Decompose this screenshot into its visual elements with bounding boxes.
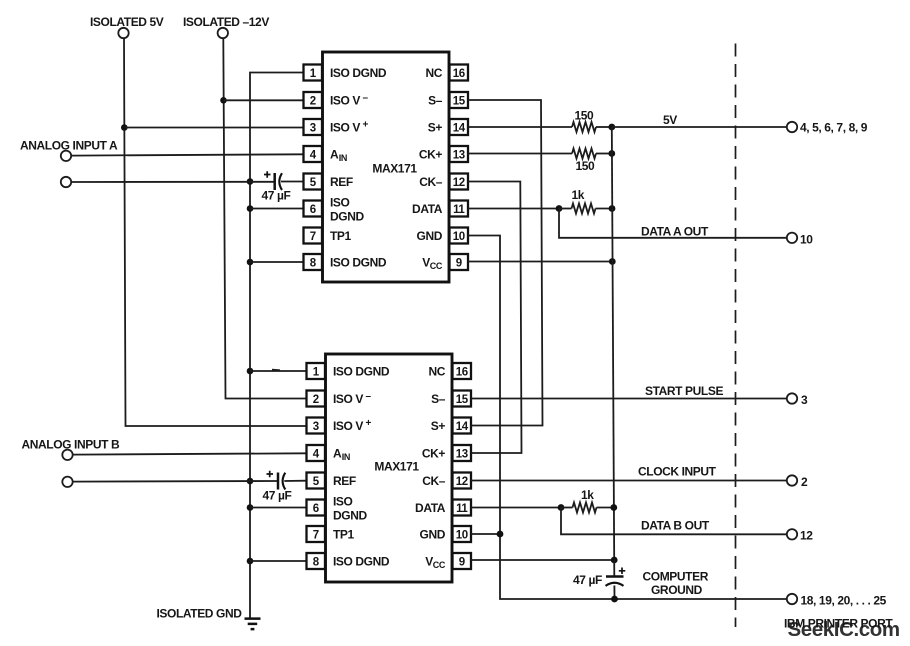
- IC U2 MAX171 body: [326, 354, 453, 582]
- terminal pin 3: [787, 393, 808, 407]
- node 5V rail top: [608, 124, 615, 131]
- terminal pin 12: [787, 529, 813, 543]
- terminal ISOLATED -12V: [183, 15, 269, 38]
- terminal pin 2: [787, 475, 808, 489]
- terminal pins 18-25: [787, 594, 887, 608]
- svg-text:MAX171: MAX171: [374, 460, 419, 474]
- pin 1 ISO DGND (U1): [304, 65, 387, 81]
- wire ISOLATED -12V net: down to U2 pin 2: [223, 38, 306, 398]
- wire lower input A to capacitor C1 / REF: [71, 181, 274, 183]
- wire U1 pin 11 DATA to node: [468, 208, 559, 210]
- svg-text:12: 12: [456, 476, 468, 488]
- terminal ANALOG INPUT A return (lower): [61, 177, 71, 187]
- wire dashed isolation boundary: [735, 44, 737, 628]
- pin 7 TP1 (U1): [304, 228, 352, 244]
- wire 5V rail vertical: [612, 127, 614, 560]
- node junction ISO DGND net y=181.5: [247, 178, 254, 185]
- wire DATA A OUT drop and run to terminal: [559, 209, 787, 239]
- wire rail to capacitor C3: [613, 560, 615, 577]
- svg-text:S+: S+: [428, 121, 443, 135]
- svg-text:5: 5: [310, 177, 317, 189]
- svg-text:6: 6: [310, 204, 316, 216]
- pin 11 DATA (U1): [412, 201, 468, 217]
- svg-text:47 µF: 47 µF: [573, 573, 602, 587]
- svg-text:REF: REF: [330, 175, 353, 189]
- svg-text:18, 19, 20, . . . 25: 18, 19, 20, . . . 25: [801, 594, 887, 608]
- wire R1 to 5V rail node: [596, 126, 612, 128]
- capacitor C1 47uF (U1 REF): [262, 171, 291, 202]
- pin 13 CK+ (U1): [419, 146, 468, 162]
- wire U1 pin 14 to resistor R1: [468, 126, 572, 128]
- pin 15 S– (U2): [431, 391, 471, 407]
- svg-text:GND: GND: [420, 528, 446, 542]
- pin 6 ISO DGND (U1): [304, 196, 365, 224]
- wire stray tick near U2 pin 1: [272, 369, 280, 372]
- svg-text:1k: 1k: [572, 188, 585, 202]
- wire R3 to rail: [596, 208, 613, 210]
- pin 16 NC (U2): [428, 363, 471, 379]
- svg-text:8: 8: [310, 257, 317, 269]
- terminal pins 4-9 of printer port: [787, 121, 868, 135]
- svg-text:1: 1: [310, 68, 317, 80]
- pin 10 GND (U2): [420, 526, 471, 542]
- pin 4 A (U1): [304, 146, 347, 163]
- wire U1 pin 6 stub: [250, 208, 304, 210]
- IC U1 MAX171 body: [323, 52, 450, 282]
- svg-text:16: 16: [456, 366, 468, 378]
- svg-text:ISO: ISO: [330, 196, 350, 210]
- pin 3 ISO V (U1): [304, 119, 369, 135]
- resistor R3 1k: [572, 188, 596, 214]
- svg-text:CLOCK INPUT: CLOCK INPUT: [638, 465, 717, 479]
- wire U2 pin 6 stub: [250, 507, 307, 509]
- pin 16 NC (U1): [425, 65, 468, 81]
- svg-text:47 µF: 47 µF: [263, 489, 292, 503]
- pin 4 A (U2): [307, 445, 350, 462]
- svg-text:NC: NC: [425, 66, 442, 80]
- resistor R2 150: [572, 149, 596, 174]
- wire U1 pin 12 CK- down to U2 pin 13 CK+: [468, 182, 522, 454]
- svg-text:10: 10: [456, 529, 468, 541]
- wire U2 pin 15 S- START PULSE to terminal: [471, 384, 787, 399]
- node junction ISO DGND net y=561: [247, 558, 254, 565]
- pin 3 ISO V (U2): [307, 418, 372, 434]
- node DATA A / R3: [556, 205, 563, 212]
- svg-text:START PULSE: START PULSE: [645, 384, 723, 398]
- svg-text:ISO DGND: ISO DGND: [333, 555, 390, 569]
- svg-text:2: 2: [313, 394, 319, 406]
- svg-text:DATA: DATA: [415, 501, 446, 515]
- pin 15 S– (U1): [428, 92, 468, 108]
- node junction ISO5V / U1 pin 3: [121, 124, 128, 131]
- svg-text:S–: S–: [428, 94, 443, 108]
- svg-text:ISO: ISO: [333, 495, 353, 509]
- svg-text:5: 5: [313, 476, 320, 488]
- pin 12 CK– (U2): [422, 473, 471, 489]
- svg-text:ISO DGND: ISO DGND: [330, 66, 387, 80]
- svg-text:2: 2: [310, 95, 316, 107]
- wire U1 pin 8 stub: [250, 261, 304, 263]
- pin 14 S+ (U1): [428, 119, 468, 135]
- pin 10 GND (U1): [417, 228, 468, 244]
- svg-text:47 µF: 47 µF: [262, 189, 291, 203]
- resistor R4 1k: [573, 488, 597, 513]
- terminal ISOLATED 5V: [90, 15, 164, 38]
- svg-text:ANALOG INPUT A: ANALOG INPUT A: [20, 139, 118, 153]
- svg-text:1k: 1k: [581, 488, 594, 502]
- pin 5 REF (U1): [304, 174, 353, 190]
- svg-text:ISOLATED –12V: ISOLATED –12V: [183, 15, 269, 29]
- wire U2 pin 9 VCC to rail: [471, 559, 614, 561]
- svg-text:12: 12: [800, 529, 813, 543]
- terminal ANALOG INPUT B return (lower): [62, 477, 72, 487]
- label COMPUTER GROUND: [643, 570, 709, 598]
- wire U1 pin 15 S- down to U2 pin 14 S+: [468, 100, 543, 426]
- svg-text:7: 7: [310, 231, 316, 243]
- svg-text:14: 14: [456, 421, 469, 433]
- terminal ANALOG INPUT A (upper): [20, 139, 118, 162]
- node C3 / computer ground: [611, 596, 618, 603]
- svg-text:REF: REF: [333, 474, 356, 488]
- svg-text:11: 11: [453, 204, 465, 216]
- svg-text:14: 14: [453, 122, 466, 134]
- svg-text:2: 2: [801, 475, 808, 489]
- svg-text:150: 150: [576, 159, 596, 173]
- svg-text:10: 10: [800, 233, 813, 247]
- svg-text:4: 4: [310, 149, 317, 161]
- node junction ISO DGND net y=481: [247, 478, 254, 485]
- node R3/rail: [609, 205, 616, 212]
- pin 5 REF (U2): [307, 473, 356, 489]
- pin 14 S+ (U2): [431, 418, 471, 434]
- capacitor C2 47uF (U2 REF): [263, 471, 292, 503]
- wire node to R3: [559, 208, 572, 210]
- node VCC B / rail: [611, 557, 618, 564]
- pin 6 ISO DGND (U2): [307, 495, 368, 523]
- svg-text:DATA A OUT: DATA A OUT: [641, 225, 709, 239]
- terminal pin 10: [787, 233, 813, 247]
- wire C3 to computer ground run: [613, 586, 615, 600]
- wire U1 pin 13 to resistor R2: [468, 153, 572, 155]
- wire 5V to terminal: [612, 113, 787, 127]
- svg-text:CK+: CK+: [422, 447, 446, 461]
- node R4/rail: [610, 504, 617, 511]
- wire C1 to U1 pin 5 REF: [281, 181, 304, 183]
- svg-text:7: 7: [313, 529, 319, 541]
- svg-text:CK+: CK+: [419, 148, 443, 162]
- svg-text:ANALOG INPUT B: ANALOG INPUT B: [22, 438, 120, 452]
- pin 9 VCC (U2): [425, 553, 471, 570]
- wire ISO DGND net: U1 pin 1 left and down to isolated ground: [250, 73, 304, 618]
- svg-text:8: 8: [313, 556, 320, 568]
- pin 11 DATA (U2): [415, 500, 471, 516]
- wire node to R4: [561, 507, 573, 509]
- svg-text:COMPUTER: COMPUTER: [643, 570, 709, 584]
- svg-text:15: 15: [456, 394, 469, 406]
- pin 12 CK– (U1): [419, 174, 468, 190]
- svg-text:1: 1: [313, 366, 320, 378]
- svg-text:10: 10: [453, 231, 465, 243]
- wire U2 pin 10 GND stub to ground net: [471, 533, 500, 535]
- wire C2 to U2 pin 5 REF: [284, 480, 306, 482]
- svg-text:16: 16: [453, 68, 465, 80]
- wire ANALOG INPUT B to U2 pin 4: [73, 453, 307, 454]
- pin 8 ISO DGND (U1): [304, 254, 387, 270]
- svg-text:CK–: CK–: [422, 474, 446, 488]
- wire U2 pin 12 CK- CLOCK INPUT to terminal: [471, 465, 787, 481]
- pin 2 ISO V (U1): [304, 92, 369, 108]
- svg-text:MAX171: MAX171: [372, 162, 417, 176]
- wire U1 pin 10 GND down (ground net) to computer ground run: [468, 236, 787, 600]
- node junction ISO-12V / U1 pin 2: [220, 97, 227, 104]
- svg-text:ISOLATED GND: ISOLATED GND: [157, 607, 243, 621]
- node junction ISO DGND net y=507.5: [247, 504, 254, 511]
- node VCC A / rail: [609, 258, 616, 265]
- svg-text:GROUND: GROUND: [651, 583, 703, 597]
- pin 8 ISO DGND (U2): [307, 553, 390, 569]
- ground ISOLATED GND symbol: [157, 607, 261, 630]
- svg-text:6: 6: [313, 503, 319, 515]
- svg-text:9: 9: [456, 257, 462, 269]
- node junction ISO DGND net y=262: [247, 259, 254, 266]
- svg-text:5V: 5V: [663, 113, 677, 127]
- svg-text:DGND: DGND: [330, 209, 364, 223]
- svg-text:150: 150: [575, 109, 595, 123]
- capacitor C3 47uF computer-ground bypass: [573, 568, 625, 588]
- wire U2 pin 11 DATA to node: [471, 507, 561, 509]
- pin 9 VCC (U1): [422, 254, 468, 271]
- wire ISOLATED 5V net: down to U2 pin 3: [124, 38, 307, 426]
- wire DATA B OUT drop and run to terminal: [561, 508, 787, 535]
- svg-text:13: 13: [456, 448, 468, 460]
- resistor R1 150: [572, 109, 596, 133]
- wire lower input B to capacitor C2 / REF: [73, 480, 277, 483]
- wire U1 pin 2 stub: [224, 99, 304, 101]
- svg-text:ISO DGND: ISO DGND: [330, 256, 387, 270]
- svg-text:S+: S+: [431, 419, 446, 433]
- svg-text:TP1: TP1: [333, 528, 355, 542]
- wire U1 pin 3 stub: [124, 127, 303, 129]
- pin 13 CK+ (U2): [422, 445, 471, 461]
- wire R2 to 5V rail: [596, 153, 612, 155]
- terminal ANALOG INPUT B (upper): [22, 438, 120, 460]
- svg-text:ISOLATED 5V: ISOLATED 5V: [90, 15, 164, 29]
- svg-text:TP1: TP1: [330, 229, 352, 243]
- svg-text:SeekIC.com: SeekIC.com: [788, 618, 900, 641]
- svg-text:CK–: CK–: [419, 175, 443, 189]
- svg-text:13: 13: [453, 149, 465, 161]
- svg-text:3: 3: [801, 393, 808, 407]
- svg-text:12: 12: [453, 177, 465, 189]
- svg-text:9: 9: [459, 556, 465, 568]
- svg-text:GND: GND: [417, 229, 443, 243]
- svg-text:4, 5, 6, 7, 8, 9: 4, 5, 6, 7, 8, 9: [800, 121, 868, 135]
- svg-text:4: 4: [313, 448, 320, 460]
- svg-text:3: 3: [313, 421, 319, 433]
- wire ANALOG INPUT A to U1 pin 4: [71, 154, 303, 155]
- node U2 GND / ground net: [497, 531, 504, 538]
- pin 2 ISO V (U2): [307, 391, 372, 407]
- svg-text:DATA: DATA: [412, 202, 443, 216]
- wire U2 pin 1 stub: [250, 370, 307, 372]
- wire R4 to rail: [597, 507, 615, 509]
- wire U2 pin 8 stub: [250, 560, 307, 562]
- svg-text:DATA B OUT: DATA B OUT: [641, 519, 710, 533]
- svg-text:3: 3: [310, 122, 316, 134]
- wire U1 pin 9 VCC to rail: [468, 261, 612, 263]
- svg-text:11: 11: [456, 503, 468, 515]
- node DATA B / R4: [558, 504, 565, 511]
- svg-text:DGND: DGND: [333, 508, 367, 522]
- pin 1 ISO DGND (U2): [307, 363, 390, 379]
- node junction ISO DGND net y=208.5: [247, 205, 254, 212]
- pin 7 TP1 (U2): [307, 526, 355, 542]
- node R2/rail: [608, 150, 615, 157]
- node junction ISO DGND net y=371: [247, 368, 254, 375]
- svg-text:NC: NC: [428, 365, 445, 379]
- svg-text:15: 15: [453, 95, 466, 107]
- svg-text:S–: S–: [431, 392, 446, 406]
- svg-text:ISO DGND: ISO DGND: [333, 365, 390, 379]
